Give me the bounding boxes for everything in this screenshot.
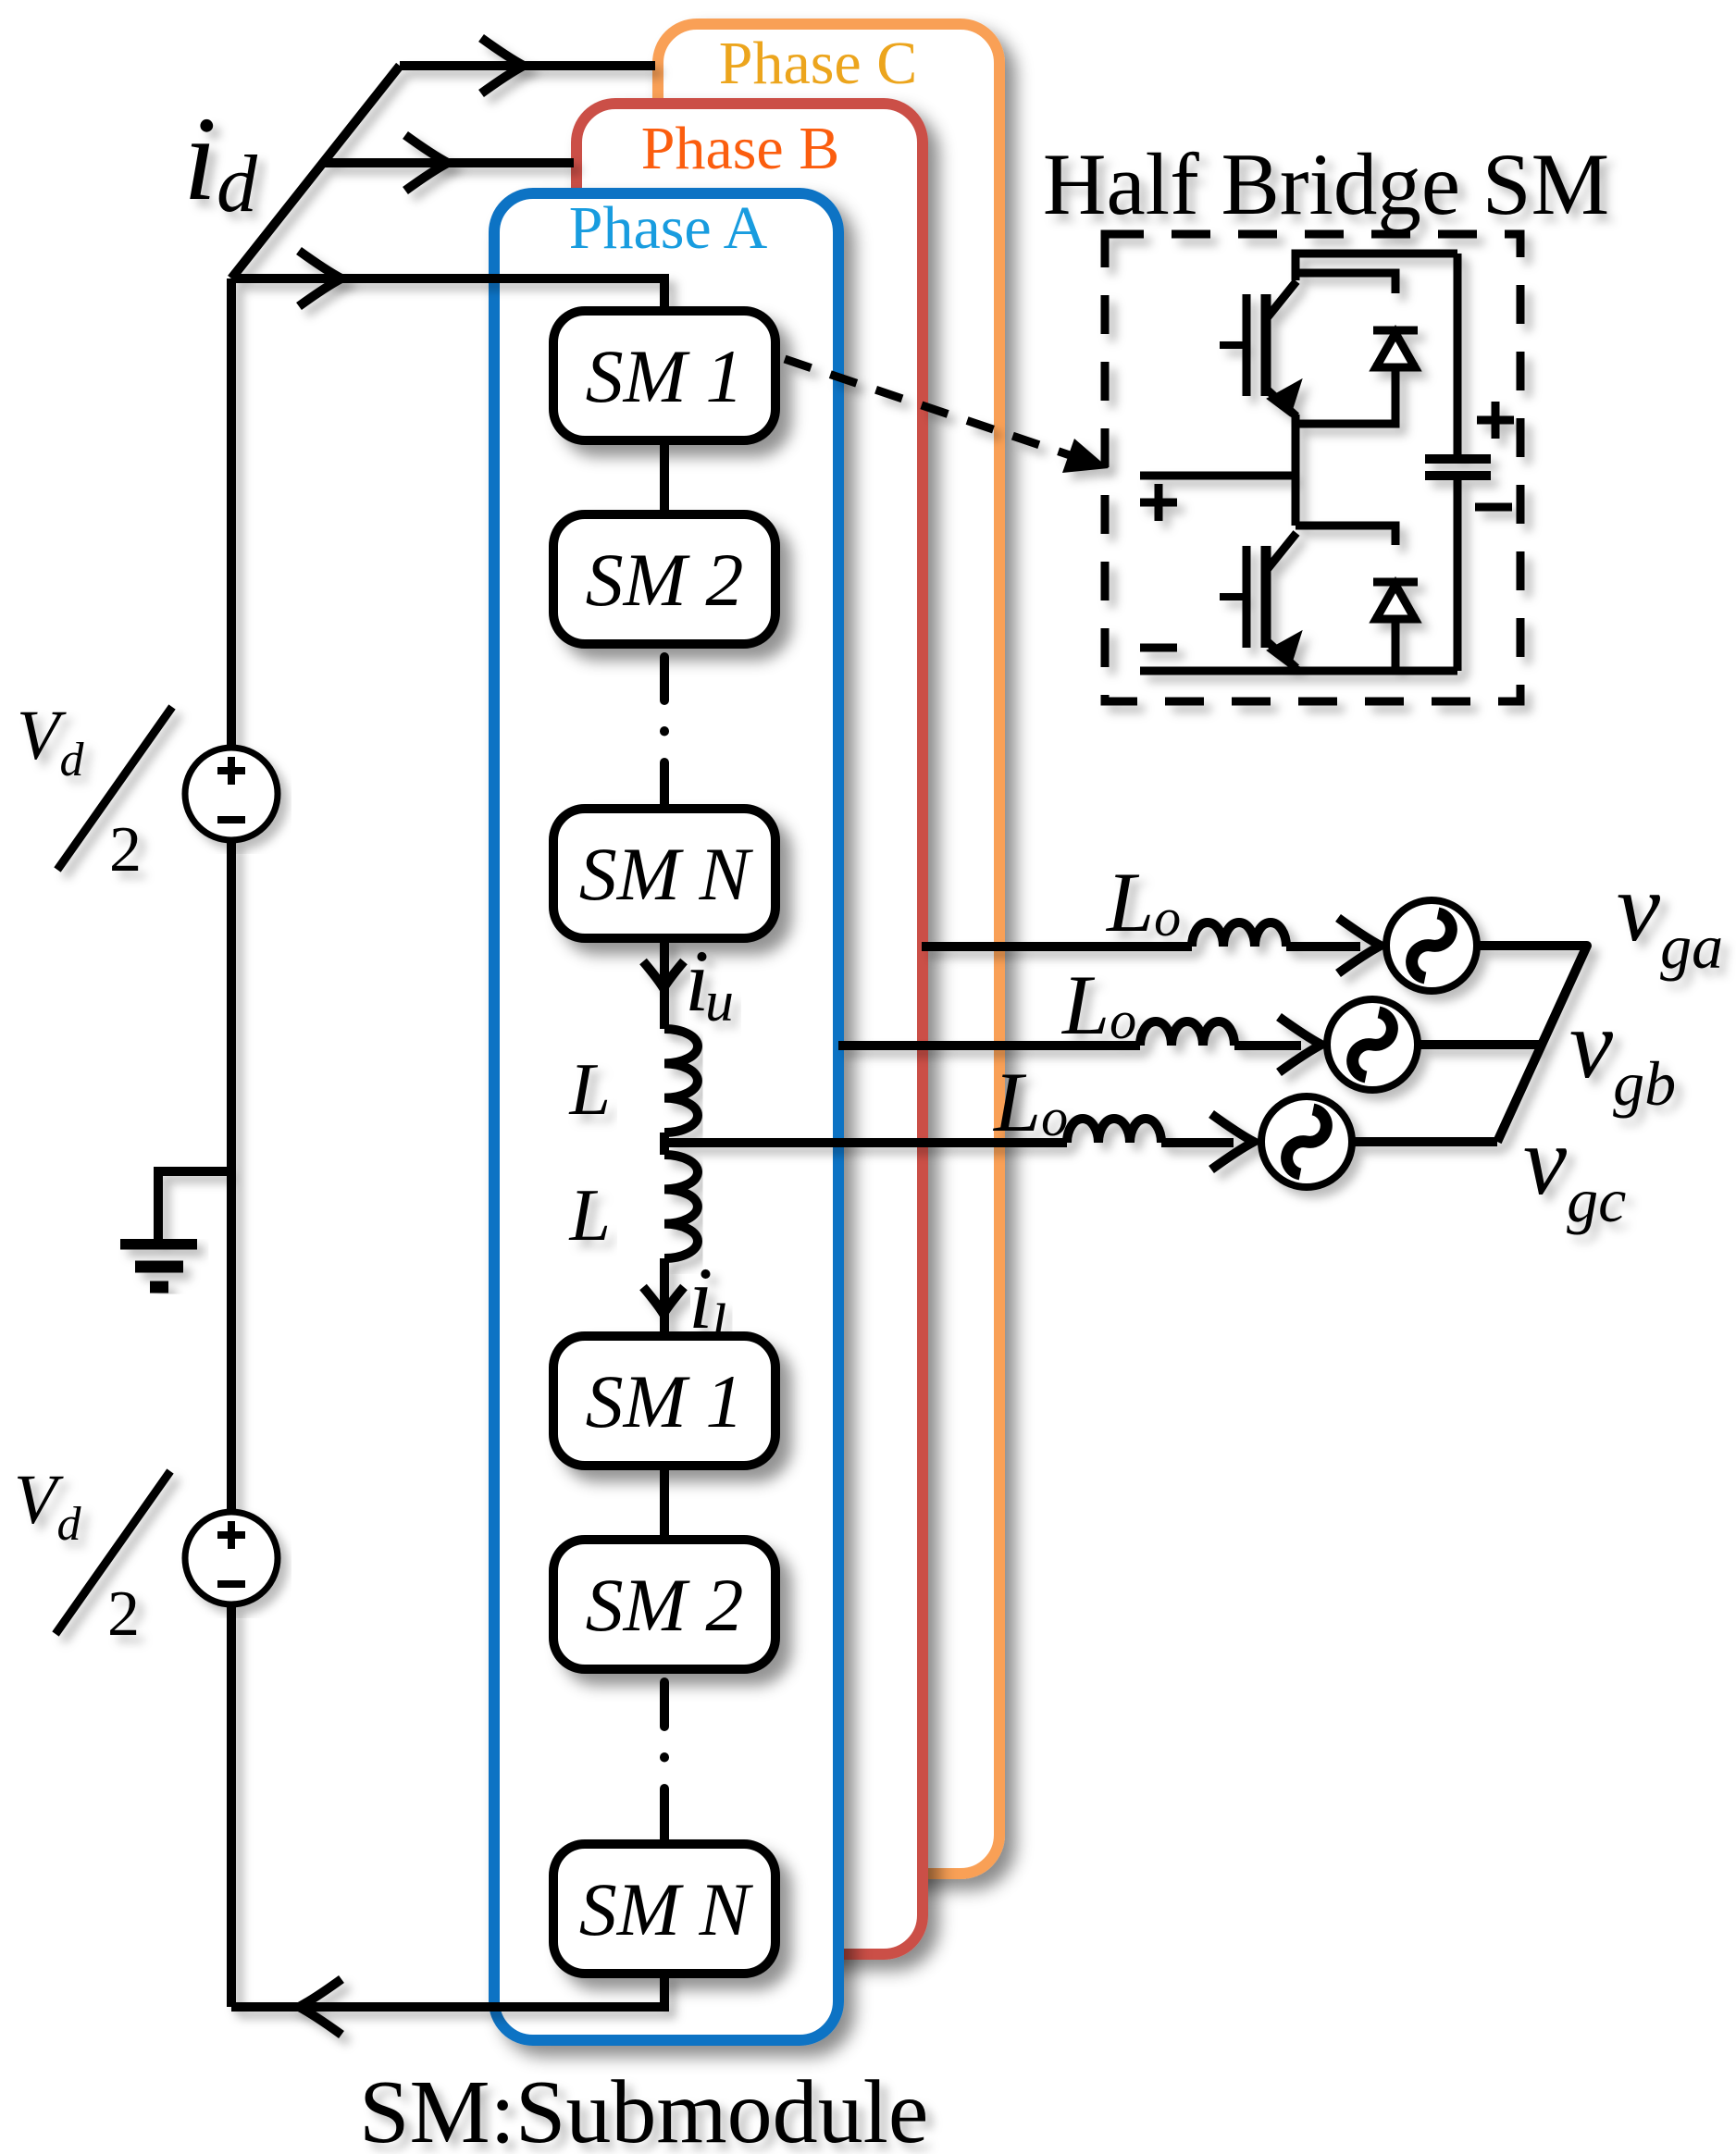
svg-text:L: L <box>569 1175 612 1256</box>
arrow: middle branch <box>405 135 448 191</box>
wire: left DC bus vertical (lower) <box>227 1604 236 2007</box>
transistor Q2 (lower IGBT) <box>1243 546 1251 648</box>
label i_u <box>685 932 734 1034</box>
wire dash-dot lower SM2-SMN <box>660 1682 669 1844</box>
voltage source V2 (lower Vd/2) <box>185 1512 278 1604</box>
wire: rail to upper diode <box>1296 273 1395 293</box>
label Vd/2 (upper) <box>17 697 172 885</box>
svg-text:L: L <box>569 1049 612 1131</box>
wire: upper diode bottom to midpoint <box>1296 367 1395 424</box>
svg-text:2: 2 <box>107 1578 140 1650</box>
svg-text:SM 2: SM 2 <box>586 538 744 622</box>
label - (input) <box>1140 644 1177 652</box>
capacitor C <box>1454 254 1462 671</box>
inductor L (upper arm) <box>664 1029 698 1133</box>
svg-text:Half Bridge SM: Half Bridge SM <box>1043 135 1609 233</box>
half-bridge dashed border box <box>1105 234 1520 701</box>
submodule box SM 1 <box>553 1336 775 1466</box>
wire junction to output <box>660 1133 669 1155</box>
wire: left input + terminal <box>1140 472 1294 480</box>
diode D1 (upper) <box>1373 327 1418 335</box>
svg-text:SM N: SM N <box>579 1867 754 1951</box>
wire: middle branch to Phase B <box>324 158 574 167</box>
wire: output line phase B (to v_gb) <box>838 1041 1140 1050</box>
svg-text:2: 2 <box>109 814 142 885</box>
inductor Lo (top) <box>1192 922 1286 947</box>
wire: bottom rail <box>1140 667 1457 675</box>
svg-text:SM 1: SM 1 <box>586 1359 744 1443</box>
svg-text:i: i <box>183 93 217 226</box>
arrow: bottom return (pointing left) <box>299 1979 341 2035</box>
AC source v_gb <box>1327 999 1418 1090</box>
wire: ground tap <box>158 1171 231 1239</box>
svg-text:u: u <box>705 971 734 1034</box>
AC source v_ga <box>1386 900 1477 991</box>
transistor Q1 (upper IGBT) <box>1243 294 1251 396</box>
label + (capacitor) <box>1477 402 1514 439</box>
svg-text:SM 1: SM 1 <box>586 334 744 418</box>
inductor Lo (bottom) <box>1067 1119 1161 1143</box>
wire: leg to lower diode <box>1296 526 1395 545</box>
submodule box SM N <box>553 1844 775 1974</box>
arrow: top branch <box>481 38 524 93</box>
svg-text:Phase C: Phase C <box>719 30 918 97</box>
phase B box <box>577 104 923 1954</box>
wire: top branch to Phase C <box>400 61 655 70</box>
wire: left DC bus vertical (upper) <box>227 279 236 748</box>
phase A box <box>494 193 838 2040</box>
label i_d <box>183 93 258 229</box>
wire: output line phase A (to v_gc) <box>664 1138 1067 1147</box>
wire SMN down with i_u arrow <box>643 938 684 1029</box>
wire: top rail to capacitor <box>1296 254 1457 280</box>
wire: lower diode to bottom rail <box>1392 619 1400 671</box>
wire dash-dot SM2-SMN <box>660 657 669 809</box>
wire: phase leg mid <box>1292 415 1300 526</box>
svg-text:d: d <box>217 140 258 229</box>
svg-text:SM:Submodule: SM:Submodule <box>359 2062 928 2154</box>
wire: bottom return bus <box>231 1974 664 2007</box>
wire: left DC bus vertical (middle) <box>227 840 236 1512</box>
arrow: bottom branch <box>299 251 341 306</box>
inductor Lo (middle) <box>1140 1021 1234 1046</box>
wire L to lower SM1 with i_l arrow <box>643 1258 684 1336</box>
wire: i_d diagonal bus <box>231 66 400 279</box>
label i_l <box>688 1249 726 1356</box>
svg-text:SM N: SM N <box>579 832 754 916</box>
AC source v_gc <box>1261 1096 1352 1187</box>
svg-text:Phase B: Phase B <box>641 115 840 182</box>
phase C box <box>658 24 999 1874</box>
inductor L (lower arm) <box>664 1155 698 1258</box>
submodule box SM 1 <box>553 311 775 440</box>
label + (input) <box>1140 484 1177 521</box>
wire: output line phase C (to v_ga) <box>922 942 1192 951</box>
submodule box SM N <box>553 809 775 938</box>
wire lower SM1-SM2 <box>660 1466 669 1540</box>
dashed arrow SM1 to Half Bridge detail <box>785 359 1109 473</box>
submodule box SM 2 <box>553 514 775 644</box>
voltage source V1 (upper Vd/2) <box>185 748 278 840</box>
svg-text:Phase A: Phase A <box>569 194 768 262</box>
ground symbol <box>120 1244 197 1287</box>
diode D2 (lower) <box>1373 578 1418 587</box>
label Vd/2 (lower) <box>14 1461 170 1650</box>
wire: IGBT2 emitter to bottom rail <box>1292 666 1300 671</box>
submodule box SM 2 <box>553 1540 775 1669</box>
label - (capacitor) <box>1475 503 1512 512</box>
wire: bottom branch to Phase A upper arm <box>231 279 664 311</box>
wire SM1-SM2 <box>660 440 669 514</box>
svg-text:SM 2: SM 2 <box>586 1563 744 1647</box>
